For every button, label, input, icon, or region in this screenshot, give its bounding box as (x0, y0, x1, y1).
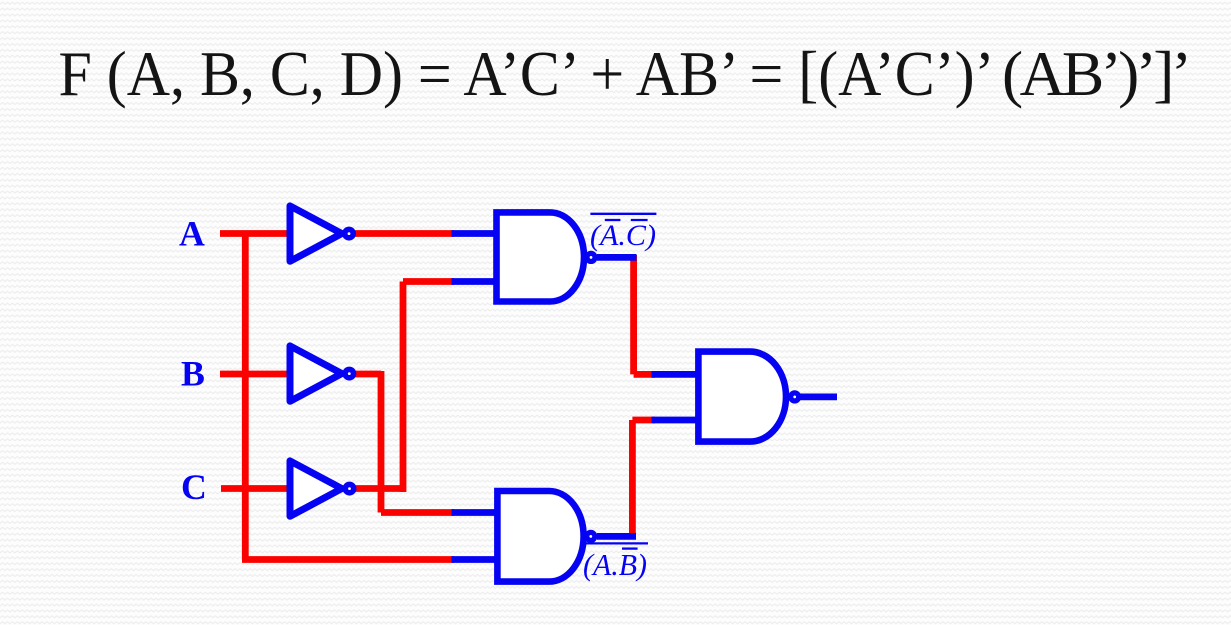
svg-text:A: A (179, 213, 205, 253)
svg-text:(A.C): (A.C) (590, 219, 656, 252)
svg-text:B: B (181, 353, 205, 393)
svg-text:(A.B): (A.B) (583, 547, 647, 582)
svg-text:C: C (181, 467, 207, 507)
svg-text:(AB’)’]’: (AB’)’]’ (1002, 38, 1192, 109)
svg-text:F (A, B, C, D) = A’C’ + AB’ =: F (A, B, C, D) = A’C’ + AB’ = [(A’C’)’ (59, 38, 995, 109)
